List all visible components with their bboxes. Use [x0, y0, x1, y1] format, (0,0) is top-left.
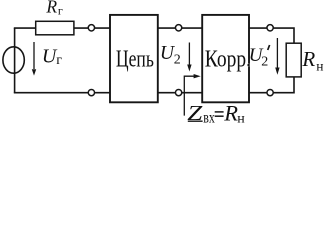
wire between boxes top: [158, 27, 202, 29]
svg-text:2: 2: [174, 52, 181, 67]
svg-text:Корр.: Корр.: [205, 45, 251, 72]
source generator circle: [3, 47, 24, 73]
label U2 prime: [249, 45, 270, 70]
terminal bottom C: [267, 89, 273, 95]
svg-text:2: 2: [261, 54, 268, 69]
label U2: [160, 43, 181, 67]
leader line Zin: [184, 76, 194, 115]
terminal top C: [267, 25, 273, 31]
svg-text:R: R: [45, 0, 57, 17]
wire resistor to box1: [74, 27, 110, 29]
arrow U2p: [276, 38, 278, 68]
wire load to bottom: [249, 77, 294, 93]
wire left rail: [14, 28, 16, 93]
arrow Ug: [33, 42, 35, 69]
wire between boxes bottom: [158, 92, 202, 94]
wire bottom left: [14, 92, 110, 94]
terminal top B: [175, 25, 181, 31]
terminal top A: [88, 25, 94, 31]
terminal bottom B: [175, 89, 181, 95]
terminal bottom A: [88, 89, 94, 95]
label Ug: [42, 46, 62, 69]
svg-text:г: г: [56, 53, 62, 68]
label Zin equals Rn: [187, 101, 245, 127]
wire top left: [14, 27, 36, 29]
svg-text:н: н: [237, 112, 245, 127]
resistor R1 generator: [36, 21, 74, 35]
resistor Rn load: [286, 43, 301, 77]
svg-text:г: г: [58, 4, 63, 18]
svg-text:R: R: [301, 47, 315, 71]
label Rg: [45, 0, 63, 18]
svg-text:вх: вх: [203, 110, 215, 127]
svg-text:н: н: [316, 58, 323, 73]
box U1 Cep: [110, 15, 158, 102]
svg-text:Цепь: Цепь: [116, 45, 154, 72]
arrow U2: [188, 43, 190, 66]
label Rn load: [301, 47, 323, 74]
wire Korr to load branch top: [249, 28, 294, 43]
svg-text:R: R: [223, 101, 238, 126]
box U2 Korr: [202, 15, 249, 102]
